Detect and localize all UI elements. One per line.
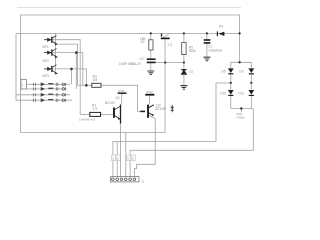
outer sheet border top bbox=[17, 6, 241, 8]
wire: bridge right column bbox=[250, 62, 252, 108]
svg-text:C2: C2 bbox=[140, 57, 144, 61]
wire: photo row1 bbox=[27, 83, 71, 85]
resistor R1 bbox=[90, 112, 101, 116]
phototransistor BF3 bbox=[44, 65, 57, 74]
node: x=165.2 riser bbox=[164, 39, 166, 132]
wire: riser row1 bbox=[71, 69, 73, 84]
wire: photo row3 bbox=[16, 94, 70, 96]
diode D4 bbox=[217, 31, 224, 36]
svg-text:D3: D3 bbox=[240, 70, 244, 74]
wire: gnd bar stem Q1 bbox=[121, 94, 123, 105]
photodiode row 1 bbox=[34, 83, 66, 86]
svg-text:7.3: 7.3 bbox=[167, 43, 172, 47]
resistor R3 bbox=[92, 83, 101, 87]
wire: BF1 emitter row bbox=[57, 44, 78, 85]
diode D3 bbox=[248, 68, 254, 73]
diode D10 bbox=[228, 90, 234, 95]
svg-text:D4: D4 bbox=[219, 25, 223, 29]
wire: R3 to Q2 base bbox=[101, 85, 140, 111]
wire: photo row4 bbox=[16, 99, 72, 101]
wire: C1 stubs bbox=[206, 33, 208, 56]
svg-text:G: G bbox=[112, 156, 114, 160]
wire: C2 to gnd bbox=[150, 63, 152, 70]
wire: R1 to Q1 base bbox=[101, 113, 113, 115]
svg-text:RDB: RDB bbox=[189, 49, 196, 53]
LDR box bbox=[21, 80, 27, 90]
ground below C2 bbox=[147, 71, 154, 75]
wire: D7 stubs bbox=[183, 63, 185, 86]
wire: gnd bar stem Q2 bbox=[149, 96, 151, 104]
phototransistor BF1 bbox=[44, 36, 57, 45]
resistor R2 bbox=[149, 40, 153, 50]
svg-text:GND: GND bbox=[146, 90, 154, 94]
zener D7 bbox=[181, 70, 186, 75]
wire: R5 stubs bbox=[183, 33, 185, 62]
wire A y=62.5 bbox=[151, 62, 184, 64]
wire: bridge join bbox=[231, 108, 254, 110]
wire: bridge gnd stub bbox=[240, 109, 242, 113]
svg-text:BF1: BF1 bbox=[43, 45, 49, 49]
wire: BF1 collector chain bbox=[55, 33, 57, 71]
wire: Q2 emitter to connector pin6 bbox=[134, 118, 155, 177]
svg-text:100u/63U: 100u/63U bbox=[208, 48, 223, 52]
wire: connector pin4 bbox=[125, 132, 127, 176]
wire: BF3 output bbox=[44, 69, 86, 85]
wire: supply rail y=33.4 bbox=[16, 32, 240, 34]
svg-text:BCU47: BCU47 bbox=[105, 101, 116, 105]
svg-text:G: G bbox=[132, 156, 134, 160]
wire: R2 stub bbox=[150, 33, 152, 39]
svg-text:1.5: 1.5 bbox=[93, 107, 98, 111]
wire: connector pin1 bbox=[112, 157, 114, 177]
svg-text:J1: J1 bbox=[142, 179, 146, 183]
wire: Q1 emitter down to pin3 bbox=[120, 123, 122, 177]
svg-text:R2: R2 bbox=[141, 40, 145, 44]
wire: R1 row bbox=[80, 113, 90, 115]
wire: Q2 emitter lead bbox=[149, 116, 155, 119]
wire: L3 from pin5 to right bridge column bbox=[130, 109, 253, 177]
svg-text:G: G bbox=[127, 156, 129, 160]
switch bar bbox=[161, 37, 170, 39]
photodiode row 3 bbox=[34, 93, 66, 96]
photodiode row 2 bbox=[34, 87, 66, 90]
capacitor C1 bbox=[204, 39, 211, 41]
wire: top rail loop bbox=[21, 15, 240, 132]
wire: R3 feed bbox=[78, 84, 92, 86]
transistor Q1 bbox=[114, 105, 121, 124]
wire: L1 bottom loop bbox=[21, 131, 166, 133]
switch tick bbox=[161, 33, 163, 36]
wire: bridge top bbox=[231, 61, 252, 63]
wire: BF1 output bbox=[44, 40, 80, 115]
switch arrow bbox=[163, 34, 169, 37]
transistor Q2 bbox=[140, 105, 154, 118]
svg-text:0,+1,2V: 0,+1,2V bbox=[130, 62, 142, 66]
svg-text:GND2: GND2 bbox=[237, 116, 245, 120]
svg-text:D7: D7 bbox=[190, 70, 194, 74]
svg-text:1M: 1M bbox=[93, 78, 98, 82]
svg-text:D10: D10 bbox=[220, 91, 226, 95]
wire: BF2 output bbox=[44, 53, 83, 86]
wire: photo row2 bbox=[21, 88, 68, 90]
svg-text:G: G bbox=[117, 156, 119, 160]
connector label block 1 bbox=[112, 155, 121, 161]
wire: L2 from pin1 to bridge bbox=[113, 83, 231, 157]
capacitor C2 bbox=[147, 58, 156, 60]
wire: left vertical x=16 bbox=[15, 33, 17, 100]
wire: connector pin2 bbox=[116, 141, 118, 177]
resistor R5 bbox=[182, 43, 186, 55]
ground below C1 bbox=[203, 57, 210, 61]
wire: bridge left column bbox=[230, 62, 232, 108]
wire: Q2 collector lead bbox=[149, 105, 154, 108]
svg-text:BCU4P: BCU4P bbox=[155, 107, 166, 111]
svg-text:BF2: BF2 bbox=[43, 59, 49, 63]
svg-text:D11: D11 bbox=[238, 91, 244, 95]
phototransistor BF2 bbox=[44, 48, 57, 57]
diode D8 floating bbox=[170, 105, 174, 112]
diode D11 bbox=[248, 90, 254, 95]
wire: riser row2 bbox=[75, 53, 77, 89]
svg-text:D5: D5 bbox=[222, 70, 226, 74]
svg-text:1N4148 4u7: 1N4148 4u7 bbox=[79, 118, 96, 122]
connector J1 bbox=[111, 177, 139, 182]
diode D5 bbox=[228, 68, 234, 73]
photodiode row 4 bbox=[34, 99, 66, 102]
junction dots bbox=[70, 32, 252, 110]
svg-text:BF3: BF3 bbox=[43, 74, 49, 78]
wire: R2 to C2 bbox=[150, 50, 152, 58]
connector label block 2 bbox=[127, 155, 136, 161]
ground below D7 bbox=[180, 86, 187, 90]
svg-text:+: + bbox=[201, 36, 203, 40]
svg-text:Q1: Q1 bbox=[115, 96, 120, 100]
